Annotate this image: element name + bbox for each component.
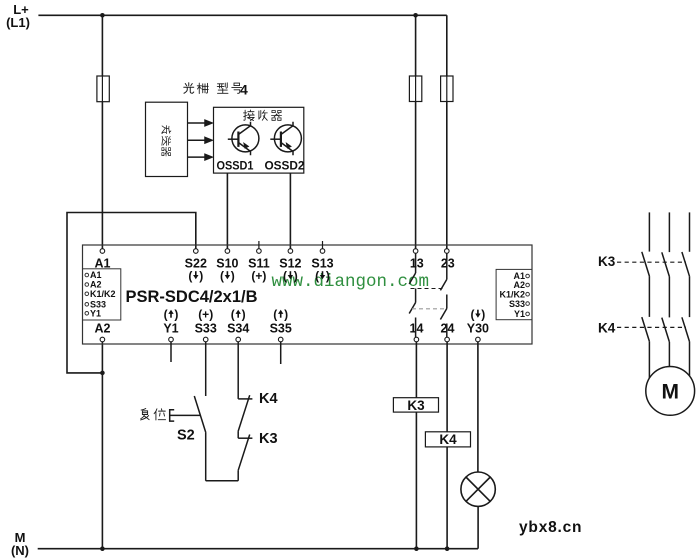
svg-text:S33: S33 (195, 322, 217, 336)
relay U1 PSR-SDC4 body (83, 245, 533, 344)
svg-text:S33: S33 (509, 299, 525, 309)
svg-text:): ) (294, 269, 298, 283)
wire top supply rail L+ (38, 14, 446, 16)
pin Y1 left list (85, 312, 89, 316)
wire A1 feed (101, 15, 103, 249)
pin A1 right list (526, 274, 530, 278)
wire OSSD1 to S10 (226, 173, 228, 249)
svg-text:PSR-SDC4/2x1/B: PSR-SDC4/2x1/B (126, 287, 258, 306)
left pinout box (83, 269, 121, 320)
node junction on M rail at x=416 (414, 546, 419, 551)
wire 14 down (415, 342, 417, 398)
terminal S12 (288, 249, 293, 254)
svg-text:K3: K3 (407, 398, 425, 413)
contact K3 pole 3 (682, 252, 690, 276)
svg-text:Y1: Y1 (514, 309, 525, 319)
contact K3 pole 1 (642, 252, 650, 276)
svg-text:M: M (661, 381, 679, 404)
lamp H1 (461, 472, 495, 506)
svg-text:): ) (242, 308, 246, 322)
terminal 13 (413, 249, 418, 254)
coil K3 (393, 398, 438, 412)
terminal 24 (445, 337, 450, 342)
coil K4 (425, 432, 470, 447)
svg-text:K4: K4 (598, 321, 616, 336)
motor M1 (646, 367, 695, 416)
wire phase 1 to motor (648, 341, 650, 378)
contact K3 NC aux (238, 431, 252, 470)
svg-text:Y1: Y1 (163, 322, 178, 336)
wire S33 down (205, 342, 207, 396)
top terminals (100, 249, 449, 254)
contact K4 pole 3 (682, 317, 690, 341)
node junction on L+ rail at x=415.6 (413, 13, 418, 18)
label 接收器 (243, 110, 281, 121)
wire A2 down to M rail (101, 342, 103, 549)
wire 24 down (446, 342, 448, 432)
top terminal labels (95, 257, 455, 271)
svg-text:K4: K4 (439, 432, 457, 447)
wire S2 bottom (205, 433, 207, 481)
svg-text:13: 13 (410, 257, 424, 271)
stub S13 (322, 241, 324, 249)
link K4 dashed (617, 326, 686, 328)
svg-text:A1: A1 (95, 257, 111, 271)
wire phase 1 top (648, 212, 650, 251)
svg-text:): ) (174, 308, 178, 322)
svg-text:): ) (284, 308, 288, 322)
wire OSSD2 to S12 (289, 173, 291, 249)
terminal S35 (278, 337, 283, 342)
svg-text:(: ( (273, 308, 277, 322)
pushbutton S2 blade (194, 396, 206, 433)
terminal 23 (445, 249, 450, 254)
wire S22 loop to A2 line (67, 213, 196, 373)
node junction on M rail at x=447 (445, 546, 450, 551)
svg-text:4: 4 (240, 82, 248, 98)
right pinout box (496, 269, 532, 319)
wire S34 down (237, 342, 239, 399)
svg-text:(L1): (L1) (6, 15, 30, 30)
wire K4 coil to rail (446, 447, 448, 549)
fuse F3 (441, 76, 453, 102)
wire phase 3 to motor (689, 342, 691, 377)
pin S33 left list (85, 303, 89, 307)
svg-text:OSSD1: OSSD1 (217, 159, 254, 173)
svg-text:A1: A1 (90, 270, 102, 280)
terminal Y30 (476, 337, 481, 342)
svg-text:14: 14 (410, 322, 424, 336)
svg-text:): ) (326, 269, 330, 283)
terminal A2 (100, 337, 105, 342)
svg-text:K3: K3 (259, 431, 278, 447)
terminal A1 (100, 249, 105, 254)
svg-text:Y1: Y1 (90, 309, 101, 319)
svg-text:): ) (481, 308, 485, 322)
pushbutton S2 actuator (170, 410, 201, 421)
beam arrow 1 (188, 120, 213, 126)
pin K1/K2 left list (85, 292, 89, 296)
svg-text:S2: S2 (177, 428, 195, 444)
svg-text:ybx8.cn: ybx8.cn (519, 519, 582, 536)
svg-text:(: ( (231, 308, 235, 322)
svg-text:Y30: Y30 (467, 322, 489, 336)
internal contact chain 23-24 (440, 253, 446, 337)
wire phase 2 to motor (668, 342, 670, 367)
svg-text:): ) (231, 269, 235, 283)
svg-text:OSSD2: OSSD2 (265, 159, 305, 173)
svg-text:): ) (199, 269, 203, 283)
stub Y1 (170, 342, 172, 362)
svg-text:(+): (+) (251, 269, 266, 283)
terminal S10 (225, 249, 230, 254)
pin K1/K2 right list (526, 292, 530, 296)
mechanical link dashed upper (411, 288, 445, 290)
wire phase 3 top (689, 212, 691, 251)
terminal 14 (414, 337, 419, 342)
transmitter box 发送器 (146, 102, 188, 176)
svg-text:(: ( (220, 269, 224, 283)
fuse F1 (97, 76, 109, 102)
contact K4 pole 1 (642, 317, 650, 341)
node junction on L+ rail at x=102 (100, 13, 105, 18)
beam arrow 3 (188, 154, 213, 160)
terminal S11 (257, 249, 262, 254)
pin Y1 right list (526, 312, 530, 316)
fuse F2 (409, 76, 421, 102)
stub S11 (258, 241, 260, 249)
contact K4 pole 2 (662, 318, 670, 342)
svg-text:K3: K3 (598, 254, 616, 269)
beam arrow 2 (188, 137, 213, 143)
label L+ (L1) (6, 2, 30, 30)
svg-text:S34: S34 (227, 322, 249, 336)
label 复位 (141, 409, 166, 420)
wire K3 aux bottom (237, 470, 239, 481)
wire K3 coil to rail (415, 412, 417, 549)
svg-text:23: 23 (441, 257, 455, 271)
svg-text:S35: S35 (270, 322, 292, 336)
stub S35 (280, 342, 282, 364)
svg-text:(: ( (315, 269, 319, 283)
pin A2 left list (85, 283, 89, 287)
wire phase 1 mid (648, 276, 650, 317)
contact K4 NC aux (238, 395, 252, 431)
svg-text:(N): (N) (11, 543, 29, 558)
contact K3 pole 2 (662, 252, 670, 276)
svg-text:(: ( (188, 269, 192, 283)
wire lamp to rail (477, 506, 479, 548)
svg-text:(: ( (164, 308, 168, 322)
bottom terminal labels (164, 308, 486, 322)
svg-text:A2: A2 (95, 322, 111, 336)
pin A2 right list (526, 283, 530, 287)
wire 23 feed (446, 15, 448, 249)
wire phase 2 mid (668, 277, 670, 318)
terminal S22 (194, 249, 199, 254)
mechanical link dashed lower (412, 308, 444, 310)
wire reset loop bottom (206, 480, 239, 482)
wire 13 feed (415, 15, 417, 249)
label 光栅 型号4 (184, 82, 248, 98)
internal contact chain 13-14 (409, 253, 415, 337)
transistor Q1 OSSD1 (228, 122, 259, 156)
link K3 dashed (617, 261, 686, 263)
transistor Q2 OSSD2 (270, 122, 301, 156)
node junction on M rail at x=102 (100, 546, 105, 551)
bottom terminals (100, 337, 480, 342)
wire phase 2 top (668, 212, 670, 252)
svg-text:K4: K4 (259, 391, 278, 407)
svg-text:(+): (+) (198, 308, 213, 322)
node junction A2/S22 loop (100, 371, 105, 376)
svg-text:(: ( (283, 269, 287, 283)
svg-text:(: ( (471, 308, 475, 322)
pin S33 right list (526, 302, 530, 306)
wire bottom return rail M (38, 548, 478, 550)
terminal S33 (203, 337, 208, 342)
receiver box (214, 107, 304, 173)
pin A1 left list (85, 273, 89, 277)
label M (N) (11, 530, 29, 558)
wire Y30 down (477, 342, 479, 472)
terminal S13 (320, 249, 325, 254)
terminal S34 (236, 337, 241, 342)
wire phase 3 mid (689, 276, 691, 317)
terminal Y1 (169, 337, 174, 342)
svg-text:K1/K2: K1/K2 (90, 289, 116, 299)
